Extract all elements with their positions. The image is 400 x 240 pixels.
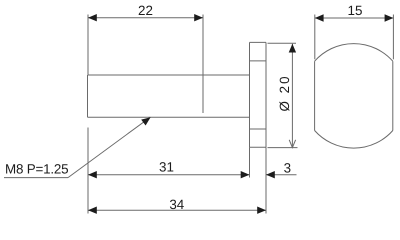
flange bottom edge	[250, 146, 267, 148]
dia20 bottom open arrow	[289, 140, 295, 148]
extension dia20 bottom	[268, 147, 298, 149]
leader arrowhead	[141, 117, 150, 125]
dimension line 3 tail	[266, 174, 297, 176]
flange right edge	[265, 42, 267, 147]
arrow 31 right	[241, 171, 250, 178]
knob bottom arc	[315, 131, 393, 149]
knob top arc	[315, 44, 393, 62]
arrow 22 right	[194, 14, 203, 21]
dimension line dia20	[291, 44, 293, 148]
flange lower chamfer line	[250, 128, 267, 130]
svg-text:15: 15	[348, 3, 363, 18]
extension line left lower	[87, 128, 89, 214]
svg-text:Ø 20: Ø 20	[277, 74, 292, 111]
rod left end face	[87, 75, 89, 117]
rod top edge	[88, 74, 250, 76]
extension flange left below	[249, 147, 251, 177]
flange upper chamfer line	[250, 60, 267, 62]
knob right side	[392, 61, 394, 130]
leader line M8	[68, 117, 150, 177]
svg-text:22: 22	[138, 3, 153, 18]
arrow 22 left	[88, 14, 97, 21]
thread end line / extension for 22	[202, 15, 204, 114]
leader underline M8	[4, 177, 68, 179]
extension flange right below	[265, 147, 267, 213]
arrow 34 left	[88, 207, 97, 214]
arrow 34 right	[257, 207, 266, 214]
extension dia20 top	[268, 42, 297, 44]
flange left edge	[249, 42, 251, 147]
svg-text:34: 34	[169, 197, 184, 212]
rod bottom edge	[88, 116, 250, 118]
arrow 31 left	[88, 171, 97, 178]
arrow 3	[266, 171, 275, 178]
svg-text:3: 3	[284, 161, 291, 176]
svg-text:M8 P=1.25: M8 P=1.25	[5, 162, 68, 177]
arrow dia20 top	[289, 44, 296, 53]
dimension line 34	[88, 209, 266, 211]
arrow 15 left	[315, 14, 324, 21]
knob left side	[314, 61, 316, 130]
dimension line 15	[315, 17, 394, 19]
dimension line 31	[88, 174, 250, 176]
extension 15 left	[314, 15, 316, 60]
flange top edge	[250, 41, 267, 43]
arrow 15 right	[385, 14, 394, 21]
dimension line 22	[88, 17, 203, 19]
extension line left upper	[87, 15, 89, 76]
extension 15 right	[392, 15, 394, 60]
svg-text:31: 31	[159, 160, 174, 175]
